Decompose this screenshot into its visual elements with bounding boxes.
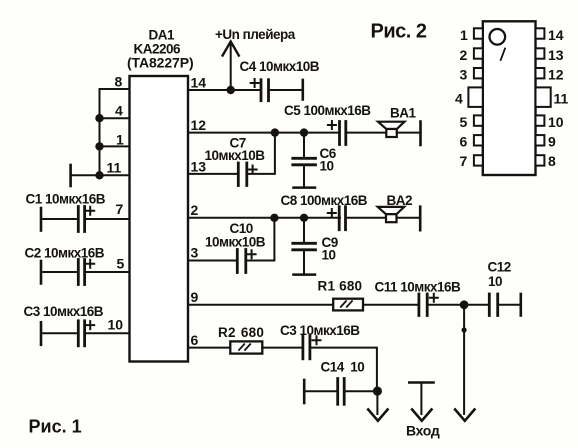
svg-text:C3 10мкх16В: C3 10мкх16В bbox=[280, 323, 360, 338]
svg-text:14: 14 bbox=[548, 27, 564, 43]
power arrow up bbox=[223, 42, 239, 91]
node C14/ground bbox=[373, 387, 382, 396]
capacitor C10 label bbox=[205, 221, 266, 250]
resistor R1 bbox=[333, 299, 363, 311]
capacitor C9 label bbox=[322, 235, 338, 263]
input terminal Вход bbox=[409, 383, 433, 421]
svg-text:9: 9 bbox=[191, 289, 199, 305]
pin 11 label bbox=[107, 160, 122, 176]
capacitor C11 bbox=[419, 294, 489, 316]
pin 6 wire bbox=[188, 347, 230, 349]
node at pin 1 on bus bbox=[95, 142, 103, 150]
node at pin 11 on bus bbox=[95, 171, 103, 179]
svg-text:C12: C12 bbox=[488, 260, 511, 275]
svg-text:5: 5 bbox=[460, 114, 468, 130]
pin 13 wire bbox=[188, 173, 238, 175]
node pin12/C7 bbox=[271, 128, 279, 136]
pin 2 label bbox=[191, 202, 199, 218]
svg-text:3: 3 bbox=[460, 67, 468, 83]
node pin2/C10 bbox=[270, 214, 278, 222]
svg-text:BA1: BA1 bbox=[390, 106, 416, 121]
speaker BA2 bbox=[378, 207, 421, 231]
svg-text:C3 10мкх16В: C3 10мкх16В bbox=[24, 304, 104, 319]
capacitor C2 label bbox=[25, 246, 105, 261]
svg-text:5: 5 bbox=[117, 256, 125, 272]
pin 14 wire bbox=[188, 89, 261, 91]
terminal bar at pin 11 wire bbox=[69, 165, 72, 186]
pin 13 label bbox=[191, 159, 207, 175]
svg-text:13: 13 bbox=[548, 47, 564, 63]
svg-text:R2 680: R2 680 bbox=[218, 325, 264, 340]
capacitor C7 label bbox=[205, 136, 266, 164]
pin 4 wire bbox=[100, 117, 130, 119]
svg-text:11: 11 bbox=[107, 160, 122, 176]
DIP pin 1 number bbox=[460, 27, 468, 43]
node pin2/C9 bbox=[300, 214, 308, 222]
capacitor C4 label bbox=[240, 59, 320, 74]
svg-text:C1 10мкх16В: C1 10мкх16В bbox=[26, 192, 106, 207]
svg-text:10: 10 bbox=[548, 114, 564, 130]
svg-text:4: 4 bbox=[455, 91, 463, 107]
svg-text:7: 7 bbox=[460, 153, 468, 169]
pin 1 label bbox=[116, 132, 124, 148]
svg-text:4: 4 bbox=[115, 103, 123, 119]
svg-text:C8 100мкх16В: C8 100мкх16В bbox=[281, 193, 368, 208]
svg-text:1: 1 bbox=[116, 132, 124, 148]
pin 3 wire bbox=[188, 260, 237, 262]
capacitor C9 bbox=[293, 218, 316, 275]
svg-text:2: 2 bbox=[460, 47, 468, 63]
capacitor C2 bbox=[41, 260, 130, 285]
speaker BA1 bbox=[378, 122, 421, 146]
DIP pin 11 number bbox=[554, 91, 569, 107]
svg-text:8: 8 bbox=[115, 74, 123, 90]
DIP pin 9 stub bbox=[536, 135, 545, 145]
svg-text:C5 100мкх16В: C5 100мкх16В bbox=[284, 103, 371, 118]
DIP pin 6 number bbox=[460, 134, 468, 150]
svg-text:C11 10мкх16В: C11 10мкх16В bbox=[375, 280, 462, 295]
svg-text:6: 6 bbox=[191, 332, 199, 348]
pin 8 label bbox=[115, 74, 123, 90]
svg-text:C14 10: C14 10 bbox=[321, 360, 365, 375]
capacitor C14 bbox=[304, 379, 377, 405]
resistor R1 label bbox=[318, 279, 363, 294]
DIP pin 14 number bbox=[548, 27, 564, 43]
node on pin 14 wire bbox=[227, 86, 235, 94]
svg-text:C4 10мкх10В: C4 10мкх10В bbox=[240, 59, 320, 74]
svg-text:8: 8 bbox=[548, 153, 556, 169]
pin 9 wire bbox=[188, 304, 333, 306]
DIP pin 8 stub bbox=[536, 155, 545, 165]
capacitor C4 bbox=[251, 79, 303, 101]
DIP pin 4 stub (large) bbox=[468, 87, 482, 107]
capacitor C3 bbox=[41, 321, 130, 346]
svg-text:Рис. 1: Рис. 1 bbox=[29, 417, 82, 437]
DIP pin 11 stub (large) bbox=[536, 87, 551, 107]
svg-text:6: 6 bbox=[460, 134, 468, 150]
pin 3 label bbox=[191, 245, 199, 261]
svg-text:10: 10 bbox=[322, 248, 336, 263]
ground arrow below C11/C12 node bbox=[455, 305, 474, 421]
DIP pin 7 stub bbox=[474, 155, 483, 165]
pin 7 label bbox=[116, 201, 124, 217]
DIP pin 5 number bbox=[460, 114, 468, 130]
DIP pin 5 stub bbox=[474, 115, 483, 125]
input label Вход bbox=[406, 423, 440, 439]
svg-text:12: 12 bbox=[191, 117, 207, 133]
DIP pin 13 stub bbox=[536, 48, 545, 58]
capacitor C14 label bbox=[321, 360, 365, 375]
svg-text:9: 9 bbox=[548, 134, 556, 150]
DIP pin 2 number bbox=[460, 47, 468, 63]
pin 1 wire bbox=[100, 145, 130, 147]
svg-text:3: 3 bbox=[191, 245, 199, 261]
svg-text:14: 14 bbox=[191, 75, 207, 91]
caption Рис. 2 bbox=[371, 21, 427, 43]
IC DA1 designator labels bbox=[127, 28, 194, 71]
speaker BA2 label bbox=[387, 193, 413, 208]
pin 6 label bbox=[191, 332, 199, 348]
pin 8 wire and left bus bbox=[100, 89, 130, 175]
svg-text:10мкх10В: 10мкх10В bbox=[205, 148, 266, 163]
DIP pin 4 number bbox=[455, 91, 463, 107]
svg-text:10мкх10В: 10мкх10В bbox=[205, 235, 266, 250]
power +Un label bbox=[215, 27, 296, 42]
svg-text:(TA8227P): (TA8227P) bbox=[127, 55, 194, 71]
DIP pin 9 number bbox=[548, 134, 556, 150]
DIP pin 10 number bbox=[548, 114, 564, 130]
DIP pin 3 stub bbox=[474, 68, 483, 78]
node at pin 4 on bus bbox=[95, 114, 103, 122]
wire pin9 row bbox=[363, 304, 419, 306]
pin 10 label bbox=[108, 317, 124, 333]
DIP pin 1 index circle bbox=[490, 29, 506, 45]
capacitor C7 bbox=[238, 133, 275, 186]
resistor R2 bbox=[230, 341, 262, 353]
capacitor C8 label bbox=[281, 193, 368, 208]
DIP-14 package body (Рис.2) bbox=[483, 21, 536, 175]
capacitor C11 label bbox=[375, 280, 462, 295]
svg-text:C2 10мкх16В: C2 10мкх16В bbox=[25, 246, 105, 261]
DIP pin 1 stub bbox=[474, 28, 483, 38]
svg-text:DA1: DA1 bbox=[149, 28, 175, 43]
capacitor C13 label bbox=[280, 323, 360, 338]
IC DA1 body bbox=[130, 76, 189, 362]
svg-text:11: 11 bbox=[554, 91, 569, 107]
capacitor C1 bbox=[41, 207, 130, 232]
DIP pin 14 stub bbox=[536, 28, 545, 38]
DIP pin 8 number bbox=[548, 153, 556, 169]
capacitor C6 bbox=[293, 133, 316, 188]
svg-text:R1 680: R1 680 bbox=[318, 279, 363, 294]
DIP pin 10 stub bbox=[536, 115, 545, 125]
svg-text:BA2: BA2 bbox=[387, 193, 413, 208]
capacitor C12 label bbox=[488, 260, 511, 290]
svg-text:12: 12 bbox=[548, 67, 564, 83]
capacitor C3 label bbox=[24, 304, 104, 319]
DIP pin 13 number bbox=[548, 47, 564, 63]
pin 2 wire bbox=[188, 217, 340, 219]
DIP pin 3 number bbox=[460, 67, 468, 83]
svg-text:2: 2 bbox=[191, 202, 199, 218]
svg-text:10: 10 bbox=[488, 274, 502, 289]
svg-text:10: 10 bbox=[108, 317, 124, 333]
capacitor C6 label bbox=[320, 146, 337, 174]
caption Рис. 1 bbox=[29, 417, 82, 437]
speaker BA1 label bbox=[390, 106, 416, 121]
svg-text:7: 7 bbox=[116, 201, 124, 217]
pin 5 label bbox=[117, 256, 125, 272]
capacitor C5 label bbox=[284, 103, 371, 118]
capacitor C12 bbox=[489, 294, 521, 316]
pin 12 wire bbox=[188, 132, 338, 134]
capacitor C1 label bbox=[26, 192, 106, 207]
svg-text:10: 10 bbox=[320, 159, 334, 174]
pin 9 label bbox=[191, 289, 199, 305]
capacitor C5 bbox=[328, 121, 386, 145]
svg-text:Рис. 2: Рис. 2 bbox=[371, 21, 427, 43]
pin 11 wire bbox=[71, 174, 130, 176]
svg-text:Вход: Вход bbox=[406, 423, 440, 439]
node C11/C12/ground bbox=[460, 300, 469, 309]
node pin12/C6 bbox=[300, 128, 308, 136]
DIP pin 2 stub bbox=[474, 48, 483, 58]
svg-text:1: 1 bbox=[460, 27, 468, 43]
svg-text:13: 13 bbox=[191, 159, 207, 175]
pin 4 label bbox=[115, 103, 123, 119]
ground arrow below C14 bbox=[368, 391, 387, 421]
DIP slash mark bbox=[501, 49, 505, 61]
capacitor C13 bbox=[262, 336, 377, 387]
DIP pin 6 stub bbox=[474, 135, 483, 145]
svg-text:+Un плейера: +Un плейера bbox=[215, 27, 296, 42]
capacitor C10 bbox=[237, 218, 274, 273]
resistor R2 label bbox=[218, 325, 264, 340]
DIP pin 12 stub bbox=[536, 68, 545, 78]
pin 14 label bbox=[191, 75, 207, 91]
DIP pin 12 number bbox=[548, 67, 564, 83]
capacitor C8 bbox=[328, 207, 386, 230]
pin 12 label bbox=[191, 117, 207, 133]
DIP pin 7 number bbox=[460, 153, 468, 169]
